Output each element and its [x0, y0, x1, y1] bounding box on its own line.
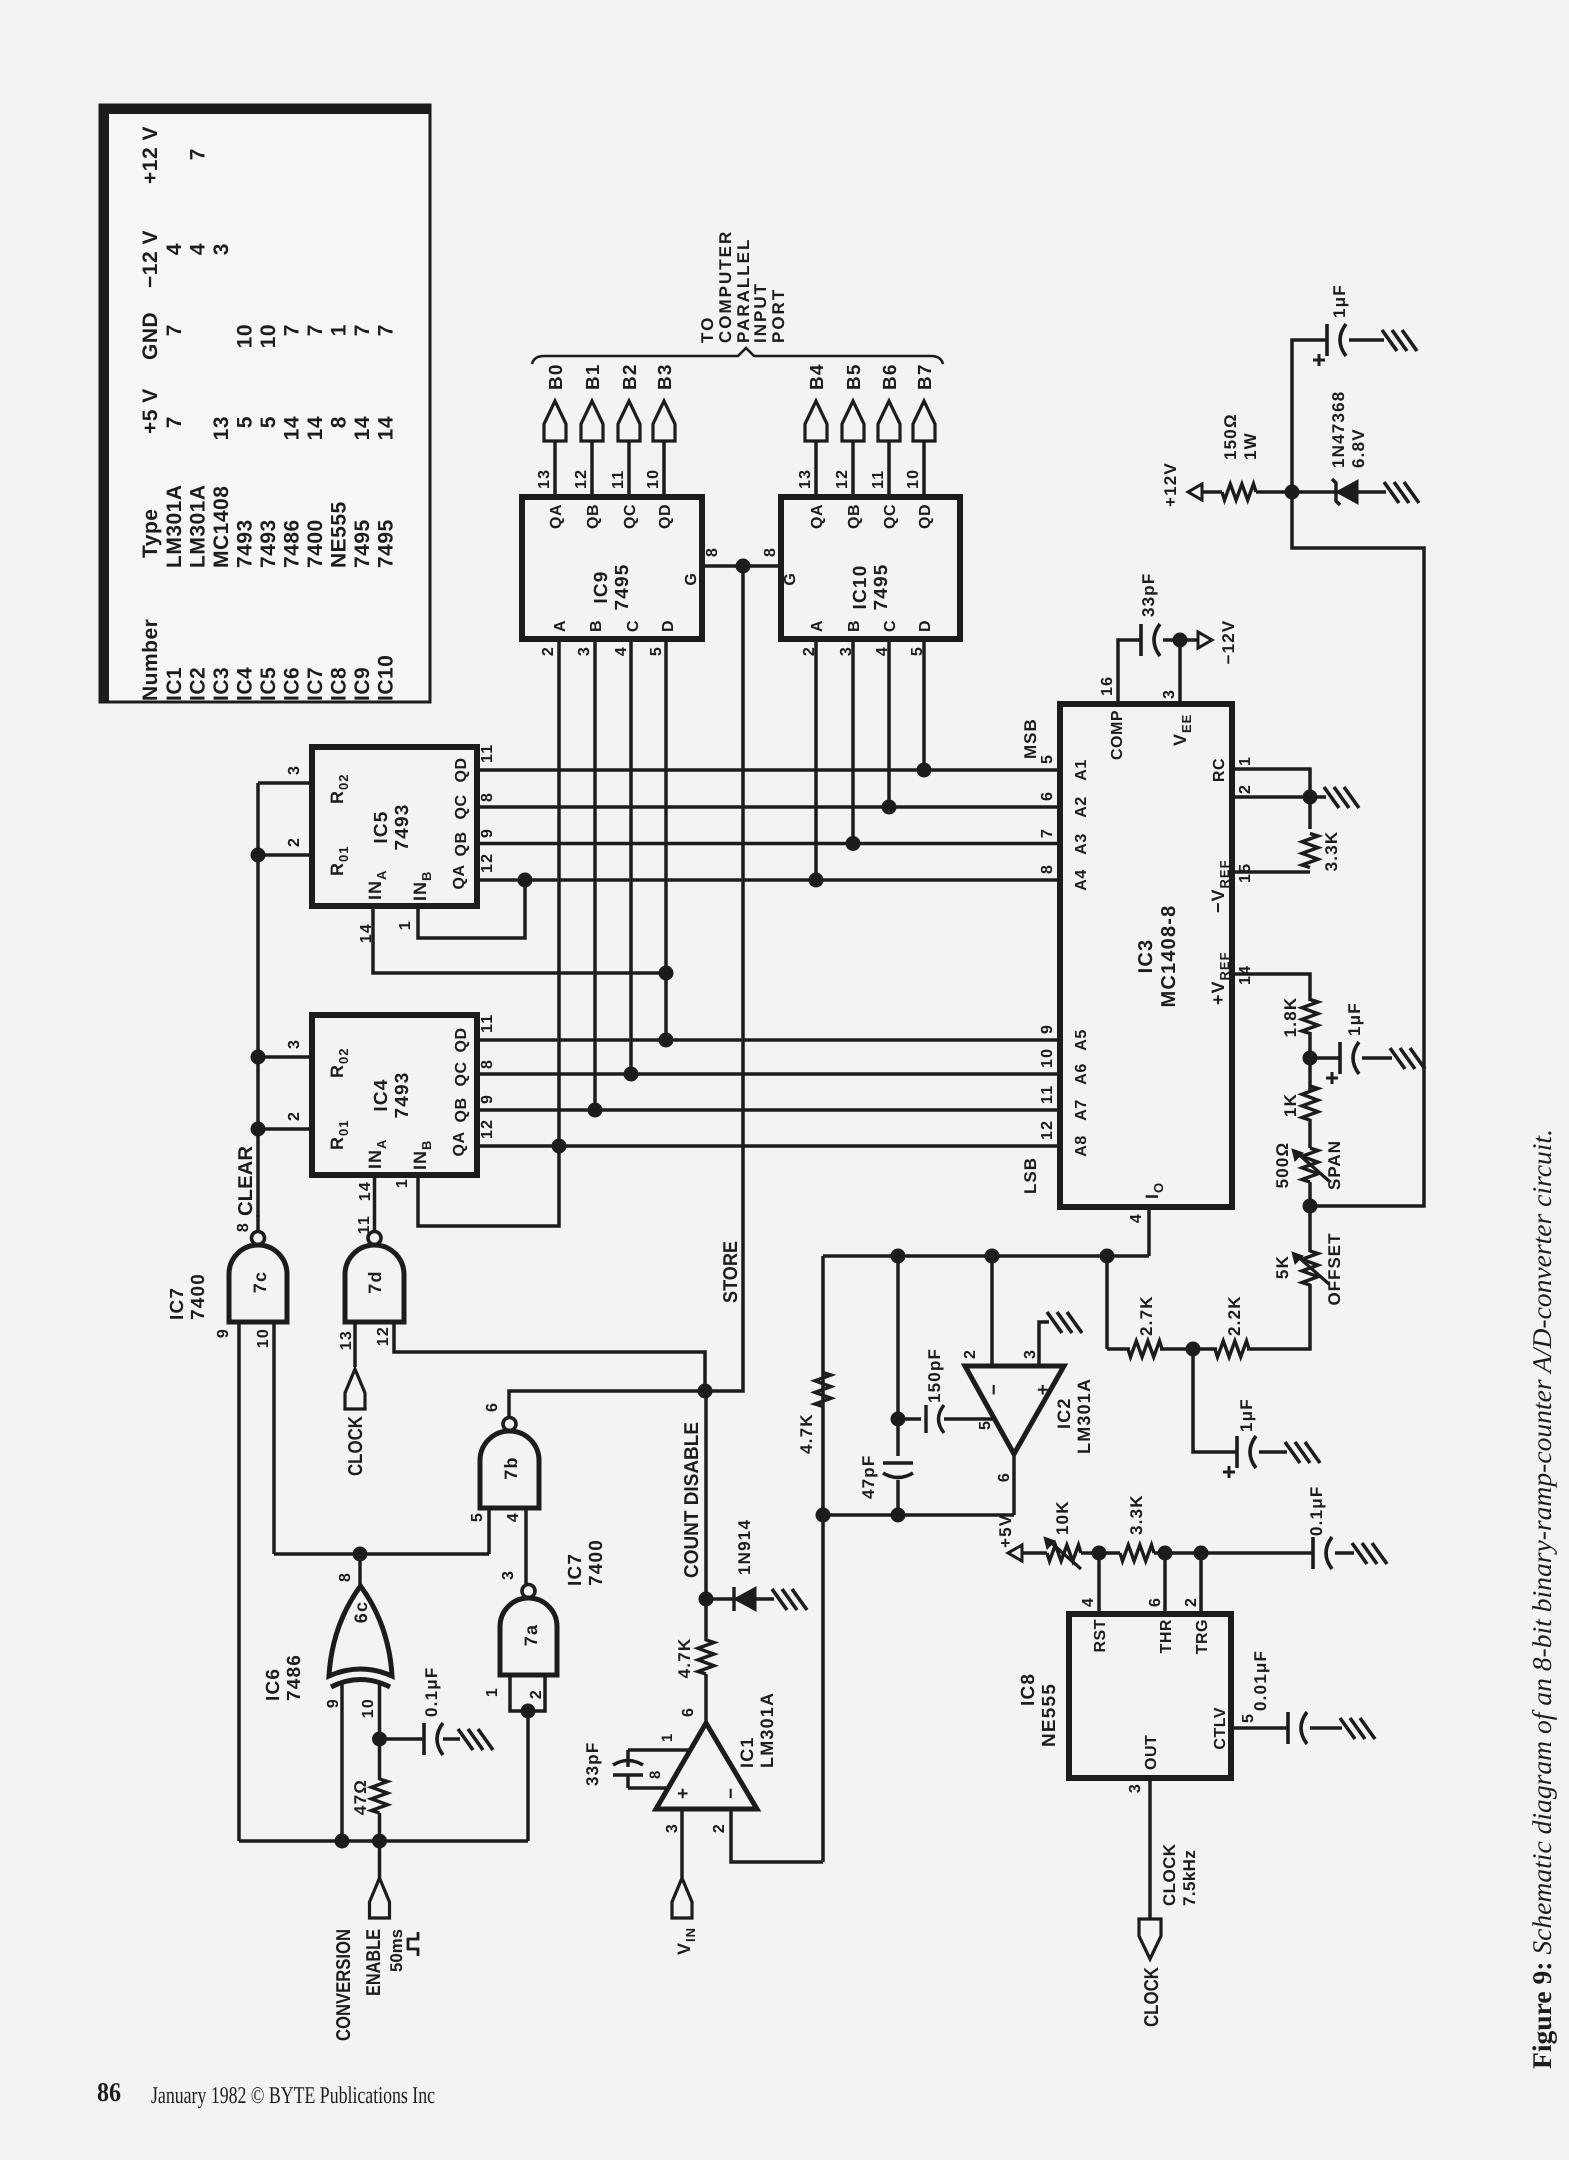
svg-text:4: 4 — [505, 1512, 522, 1522]
junction SPAN/reference rail — [1303, 1199, 1318, 1214]
svg-text:6c: 6c — [351, 1601, 371, 1623]
wire chain — [1308, 1058, 1312, 1091]
output arrow B6 — [878, 401, 900, 441]
output arrow B2 — [618, 401, 640, 441]
output arrow CLOCK out — [1139, 1919, 1161, 1959]
capacitor 150pF to IC2 pin 5 — [898, 1417, 921, 1421]
wire 6c input pin 9 — [340, 1682, 344, 1841]
svg-text:A2: A2 — [1073, 796, 1090, 817]
IC4 7493 box — [312, 1015, 477, 1175]
svg-text:IC9: IC9 — [351, 667, 374, 701]
output arrow B1 — [581, 401, 603, 441]
wire CTLV pin 5 — [1231, 1726, 1288, 1730]
svg-text:1μF: 1μF — [1345, 1002, 1364, 1036]
svg-text:4: 4 — [187, 243, 210, 255]
capacitor 0.01uF on CTLV — [1286, 1712, 1290, 1744]
diode 1N914 clamp — [706, 1597, 734, 1601]
svg-text:QD: QD — [917, 504, 934, 529]
svg-text:IC7: IC7 — [565, 1553, 586, 1586]
svg-text:D: D — [917, 619, 934, 632]
svg-text:CLEAR: CLEAR — [235, 1145, 257, 1216]
svg-text:7400: 7400 — [304, 519, 327, 568]
svg-text:RC: RC — [1211, 758, 1228, 782]
potentiometer 5K OFFSET — [1308, 1206, 1312, 1252]
wire IC9 input D row — [664, 639, 668, 1040]
wire IC4 QD column to DAC A5 — [477, 1038, 1060, 1042]
wire IO pin 4 stub — [1147, 1207, 1151, 1256]
wire conversion enable rail — [239, 1839, 528, 1843]
resistor 3.3K (RC) — [1308, 797, 1312, 829]
svg-text:+5V: +5V — [996, 1514, 1015, 1548]
wire IC9 output QA pin to arrow — [553, 441, 557, 497]
svg-text:IC8: IC8 — [1018, 1673, 1039, 1706]
wire IC5 INA clock from IC4 QD (ripple cascade) — [373, 906, 666, 973]
svg-text:GND: GND — [139, 312, 162, 360]
svg-text:1: 1 — [484, 1687, 501, 1697]
svg-text:IC10: IC10 — [850, 565, 871, 610]
svg-text:IC5: IC5 — [257, 667, 280, 701]
junction IC9.A / IC4.QA / INB loop — [552, 1139, 567, 1154]
svg-text:IC5: IC5 — [371, 810, 392, 843]
svg-text:6: 6 — [1147, 1597, 1164, 1607]
junction VEE/-12V — [1173, 633, 1188, 648]
svg-text:0.1μF: 0.1μF — [1307, 1486, 1326, 1536]
junction IC10.A / IC5.QA — [809, 873, 824, 888]
svg-text:6: 6 — [680, 1707, 697, 1717]
svg-text:4.7K: 4.7K — [675, 1638, 694, 1679]
junction rail/6c pin9 — [335, 1834, 350, 1849]
wire IC10 input A row — [814, 639, 818, 880]
svg-text:QA: QA — [451, 865, 468, 890]
supply arrow +5V — [1008, 1545, 1022, 1561]
input arrow CONVERSION ENABLE — [370, 1878, 390, 1918]
svg-text:A: A — [809, 619, 826, 632]
output arrow B7 — [913, 401, 935, 441]
op-amp IC1 LM301A comparator — [656, 1723, 757, 1809]
junction STORE / 7d pin 12 / count-disable — [698, 1384, 713, 1399]
junction IC9.B / IC4.QB — [588, 1103, 603, 1118]
svg-text:5: 5 — [977, 1420, 994, 1430]
wire IC9 output QB pin to arrow — [590, 441, 594, 497]
svg-text:1: 1 — [659, 1732, 676, 1742]
svg-text:1K: 1K — [1281, 1093, 1300, 1117]
svg-text:16: 16 — [1099, 676, 1116, 696]
resistor 47 ohm — [372, 1779, 388, 1813]
svg-text:QC: QC — [453, 795, 470, 820]
svg-text:7: 7 — [281, 324, 304, 336]
junction XOR output node — [353, 1547, 368, 1562]
svg-text:COMPUTER: COMPUTER — [716, 230, 735, 343]
svg-text:MC1408-8: MC1408-8 — [1158, 905, 1180, 1008]
wire comparator feedback node vertical — [274, 1552, 489, 1556]
svg-text:1: 1 — [397, 920, 414, 930]
wire 7a tied inputs — [510, 1675, 545, 1711]
svg-text:3: 3 — [286, 1039, 303, 1049]
svg-text:7: 7 — [163, 324, 186, 336]
compensation capacitor 33pF on IC1 pins 1,8 — [628, 1748, 690, 1752]
XOR gate 6c (IC6 7486) — [331, 1680, 390, 1688]
svg-text:6: 6 — [484, 1402, 501, 1412]
wire IC10 output QD pin to arrow — [922, 441, 926, 497]
wire 7d output to IC4 INA — [373, 1175, 377, 1231]
svg-text:12: 12 — [834, 469, 851, 489]
svg-text:1: 1 — [394, 1178, 411, 1188]
wire IC9 input C row — [629, 639, 633, 1074]
NAND gate 7d — [345, 1245, 404, 1322]
svg-text:2: 2 — [286, 837, 303, 847]
svg-text:7a: 7a — [521, 1624, 541, 1646]
svg-text:A1: A1 — [1073, 759, 1090, 780]
IC10 7495 box — [781, 497, 960, 639]
wire 7d input pin 12 from STORE net — [394, 1322, 705, 1391]
svg-text:A8: A8 — [1073, 1135, 1090, 1156]
svg-text:IC1: IC1 — [737, 1736, 757, 1768]
wire 47pF feedback branch — [896, 1256, 900, 1456]
svg-text:10: 10 — [905, 469, 922, 489]
capacitor 47pF — [883, 1461, 913, 1465]
wire +5V rail — [1022, 1551, 1047, 1555]
svg-text:7486: 7486 — [284, 1654, 305, 1701]
svg-text:2: 2 — [540, 646, 557, 656]
svg-text:7c: 7c — [250, 1271, 270, 1293]
wire 7b input pin 5 — [487, 1508, 491, 1554]
wire IC9 input A row — [557, 639, 561, 1146]
svg-text:B1: B1 — [583, 363, 604, 390]
svg-text:G: G — [683, 572, 700, 586]
svg-text:50ms: 50ms — [387, 1929, 406, 1972]
wire to zener reference rail — [1292, 492, 1424, 1206]
svg-text:7400: 7400 — [586, 1539, 607, 1586]
wire 7a output to 7b pin 4 — [524, 1508, 528, 1585]
junction 1.8K/1uF — [1303, 1051, 1318, 1066]
junction TRG — [1194, 1546, 1209, 1561]
svg-text:7: 7 — [187, 148, 210, 160]
junction 2.2K/2.7K/1uF — [1186, 1342, 1201, 1357]
wire 6c input pin 10 via 47 ohm — [378, 1813, 382, 1841]
svg-text:3: 3 — [1022, 1349, 1039, 1359]
wire IC10 input C row — [887, 639, 891, 807]
svg-text:A3: A3 — [1073, 833, 1090, 854]
pulse symbol — [408, 1932, 418, 1956]
svg-text:12: 12 — [479, 1119, 496, 1139]
wire IC5 QD column to DAC A1 (MSB bit) — [477, 768, 1060, 772]
wire IC5 QC column to DAC A2 — [477, 805, 1060, 809]
svg-text:7400: 7400 — [188, 1273, 209, 1320]
svg-text:QB: QB — [585, 504, 602, 529]
svg-text:Type: Type — [139, 509, 162, 558]
wire -12V arrow stub — [1180, 638, 1198, 642]
svg-text:10: 10 — [645, 469, 662, 489]
wire IC4 QB column to DAC A7 — [477, 1108, 1060, 1112]
svg-text:11: 11 — [610, 470, 627, 489]
svg-text:LM301A: LM301A — [1074, 1378, 1094, 1454]
svg-text:10: 10 — [1039, 1048, 1056, 1068]
svg-text:B: B — [846, 619, 863, 632]
svg-text:MSB: MSB — [1021, 718, 1040, 759]
svg-text:1: 1 — [328, 324, 351, 336]
svg-text:1W: 1W — [1241, 432, 1260, 460]
wire RST pin 4 — [1097, 1553, 1101, 1614]
svg-text:CTLV: CTLV — [1212, 1707, 1229, 1750]
wire IC10 output QA pin to arrow — [814, 441, 818, 497]
svg-text:8: 8 — [762, 547, 779, 557]
svg-text:QA: QA — [451, 1132, 468, 1157]
svg-text:2: 2 — [286, 1111, 303, 1121]
svg-text:7: 7 — [1039, 828, 1056, 838]
svg-text:IC1: IC1 — [163, 667, 186, 701]
svg-text:3.3K: 3.3K — [1127, 1494, 1146, 1535]
junction IC10.C / IC5.QC — [882, 800, 897, 815]
svg-text:4: 4 — [1128, 1213, 1145, 1223]
svg-text:10: 10 — [360, 1698, 377, 1718]
svg-text:5: 5 — [469, 1512, 486, 1522]
svg-text:SPAN: SPAN — [1325, 1140, 1344, 1190]
wire IC1 inverting input from integrator output — [731, 1809, 823, 1862]
wire IC4 INB tied to IC4 QA — [418, 1146, 559, 1226]
wire +VREF pin 14 down to divider chain — [1232, 974, 1310, 1001]
svg-text:QA: QA — [548, 504, 565, 529]
wire IC10 output QB pin to arrow — [851, 441, 855, 497]
wire rail — [1099, 1551, 1120, 1555]
wire THR pin 6 — [1163, 1553, 1167, 1614]
svg-text:OFFSET: OFFSET — [1325, 1232, 1344, 1305]
wire rail to 0.1uF — [1201, 1551, 1313, 1555]
svg-text:−12 V: −12 V — [139, 230, 162, 288]
svg-text:IC6: IC6 — [263, 1668, 284, 1701]
junction rail/47 ohm — [372, 1834, 387, 1849]
resistor 3.3K timer — [1120, 1545, 1154, 1561]
svg-text:3: 3 — [500, 1570, 517, 1580]
svg-text:3: 3 — [286, 765, 303, 775]
svg-text:ENABLE: ENABLE — [363, 1929, 385, 1996]
svg-text:7493: 7493 — [392, 1071, 413, 1118]
svg-text:2: 2 — [1183, 1597, 1200, 1607]
svg-text:QA: QA — [809, 504, 826, 529]
junction CLEAR/IC4 pin2 — [251, 1122, 266, 1137]
svg-text:B7: B7 — [915, 363, 936, 390]
wire IC2 output to comparator — [1012, 1454, 1016, 1515]
wire IC5 QA column to DAC A4 — [477, 878, 1060, 882]
svg-text:5: 5 — [234, 416, 257, 428]
svg-text:8: 8 — [647, 1769, 664, 1779]
wire 2.7K top to summing node — [1105, 1256, 1109, 1349]
NAND gate 7a — [500, 1598, 557, 1675]
svg-text:14: 14 — [304, 416, 327, 440]
wire IC10 input D row — [922, 639, 926, 770]
svg-text:C: C — [625, 619, 642, 632]
potentiometer 10K — [1047, 1545, 1081, 1561]
wire OUT pin 3 to clock arrow — [1148, 1778, 1152, 1919]
svg-text:3: 3 — [1127, 1783, 1144, 1793]
svg-text:TRG: TRG — [1194, 1619, 1211, 1654]
svg-text:4: 4 — [613, 646, 630, 656]
svg-text:11: 11 — [870, 470, 887, 489]
IC9 7495 box — [522, 497, 702, 639]
svg-text:IC8: IC8 — [328, 667, 351, 701]
output arrow B0 — [544, 401, 566, 441]
svg-text:IC10: IC10 — [375, 655, 398, 701]
svg-text:RST: RST — [1092, 1619, 1109, 1653]
wire IC4 QA column to DAC A8 (LSB bit) — [477, 1144, 1060, 1148]
svg-text:CLOCK: CLOCK — [345, 1416, 367, 1476]
svg-text:1N914: 1N914 — [735, 1519, 754, 1575]
svg-text:5: 5 — [648, 646, 665, 656]
svg-text:QD: QD — [657, 504, 674, 529]
svg-text:January 1982 © BYTE Publicatio: January 1982 © BYTE Publications Inc — [151, 2083, 435, 2109]
svg-text:LM301A: LM301A — [163, 484, 186, 568]
svg-text:C: C — [882, 619, 899, 632]
svg-text:B0: B0 — [546, 363, 567, 390]
junction on G wire — [736, 559, 751, 574]
junction 150pF tap — [891, 1412, 906, 1427]
svg-text:10: 10 — [234, 324, 257, 348]
bracket grouping output bits to computer port — [532, 348, 943, 364]
svg-text:14: 14 — [281, 416, 304, 440]
svg-text:B: B — [588, 619, 605, 632]
junction 47pF/output — [891, 1508, 906, 1523]
svg-text:8: 8 — [1039, 864, 1056, 874]
svg-text:9: 9 — [479, 828, 496, 838]
svg-text:12: 12 — [375, 1326, 392, 1346]
svg-text:4.7K: 4.7K — [797, 1413, 816, 1454]
potentiometer 500 ohm SPAN — [1302, 1148, 1318, 1182]
svg-text:+5 V: +5 V — [139, 388, 162, 434]
svg-text:−12V: −12V — [1219, 620, 1238, 665]
resistor 1.8K — [1302, 999, 1318, 1033]
svg-text:14: 14 — [375, 416, 398, 440]
svg-text:+12V: +12V — [1161, 462, 1180, 507]
svg-text:13: 13 — [338, 1330, 355, 1350]
svg-text:47Ω: 47Ω — [351, 1779, 370, 1815]
svg-text:0.01μF: 0.01μF — [1251, 1650, 1270, 1711]
svg-text:10: 10 — [257, 324, 280, 348]
wire output to count disable node — [704, 1391, 708, 1641]
junction 1N914 tap — [699, 1592, 714, 1607]
svg-text:1μF: 1μF — [1330, 284, 1349, 318]
wire VEE pin 3 to -12V node — [1178, 640, 1182, 704]
wire IC5 QB column to DAC A3 — [477, 842, 1060, 846]
svg-text:A6: A6 — [1073, 1063, 1090, 1084]
svg-text:QB: QB — [453, 1098, 470, 1123]
svg-text:NE555: NE555 — [1039, 1683, 1060, 1747]
IC8 NE555 box — [1069, 1614, 1231, 1778]
svg-text:−: − — [721, 1787, 742, 1799]
svg-text:QB: QB — [846, 504, 863, 529]
svg-text:CONVERSION: CONVERSION — [333, 1929, 355, 2041]
svg-text:B4: B4 — [807, 363, 828, 390]
svg-text:2: 2 — [962, 1349, 979, 1359]
svg-text:13: 13 — [210, 416, 233, 440]
capacitor 0.1uF at gate input — [380, 1737, 425, 1741]
svg-text:3: 3 — [1161, 689, 1178, 699]
supply arrow -12V — [1198, 632, 1212, 648]
svg-text:86: 86 — [97, 2077, 121, 2107]
svg-text:STORE: STORE — [720, 1241, 742, 1303]
svg-text:A: A — [552, 619, 569, 632]
input arrow VIN — [672, 1878, 692, 1918]
resistor 1K — [1302, 1086, 1318, 1120]
svg-text:IC7: IC7 — [304, 667, 327, 701]
svg-text:9: 9 — [325, 1698, 342, 1708]
svg-text:7b: 7b — [501, 1456, 521, 1479]
svg-text:A7: A7 — [1073, 1099, 1090, 1120]
svg-text:IC9: IC9 — [591, 570, 612, 603]
wire feedback resistor 4.7K line — [821, 1256, 825, 1862]
junction RST — [1092, 1546, 1107, 1561]
svg-text:150Ω: 150Ω — [1221, 413, 1240, 460]
wire rail — [1165, 1551, 1201, 1555]
svg-text:4: 4 — [1080, 1597, 1097, 1607]
svg-text:QB: QB — [453, 832, 470, 857]
svg-text:6: 6 — [996, 1472, 1013, 1482]
svg-text:IC3: IC3 — [1135, 939, 1157, 974]
junction summing/minus input — [985, 1249, 1000, 1264]
svg-text:5K: 5K — [1273, 1255, 1292, 1279]
output arrow B4 — [805, 401, 827, 441]
svg-text:47pF: 47pF — [859, 1455, 878, 1499]
svg-text:IC4: IC4 — [371, 1078, 392, 1111]
wire IC9 input B row — [593, 639, 597, 1110]
svg-text:COMP: COMP — [1109, 710, 1126, 760]
svg-text:A5: A5 — [1073, 1029, 1090, 1050]
svg-text:+: + — [1033, 1383, 1054, 1395]
svg-text:7.5kHz: 7.5kHz — [1180, 1850, 1199, 1906]
resistor 150 ohm 1W — [1222, 484, 1256, 500]
svg-text:14: 14 — [357, 1181, 374, 1201]
wire IC9 output QC pin to arrow — [627, 441, 631, 497]
svg-text:11: 11 — [356, 1215, 373, 1234]
svg-text:1μF: 1μF — [1237, 1398, 1256, 1432]
svg-text:7495: 7495 — [871, 563, 892, 610]
junction pin2/ground — [1303, 790, 1318, 805]
svg-text:B5: B5 — [844, 363, 865, 390]
wire IC2 minus input to summing node — [990, 1256, 994, 1366]
junction 0.1uF tap — [372, 1732, 387, 1747]
zener diode 1N47368 6.8V — [1292, 490, 1336, 494]
svg-text:IC3: IC3 — [210, 667, 233, 701]
svg-text:7: 7 — [351, 324, 374, 336]
svg-text:IC4: IC4 — [234, 667, 257, 701]
svg-text:Number: Number — [139, 619, 162, 701]
wire IC10 output QC pin to arrow — [887, 441, 891, 497]
svg-text:3: 3 — [576, 646, 593, 656]
svg-text:LM301A: LM301A — [757, 1692, 777, 1768]
svg-text:8: 8 — [479, 1059, 496, 1069]
svg-text:5: 5 — [1240, 1713, 1257, 1723]
output arrow B3 — [653, 401, 675, 441]
svg-text:2: 2 — [528, 1689, 545, 1699]
svg-text:IC7: IC7 — [167, 1287, 188, 1320]
junction IC10.B / IC5.QB — [846, 836, 861, 851]
svg-text:7: 7 — [304, 324, 327, 336]
svg-text:11: 11 — [479, 1014, 496, 1033]
svg-text:33pF: 33pF — [1139, 573, 1158, 617]
svg-text:B6: B6 — [880, 363, 901, 390]
wire IC9 output QD pin to arrow — [662, 441, 666, 497]
svg-text:2.7K: 2.7K — [1137, 1295, 1156, 1336]
ground at DAC pin 2 — [1310, 795, 1326, 799]
svg-text:2.2K: 2.2K — [1225, 1295, 1244, 1336]
svg-text:IC2: IC2 — [1054, 1397, 1074, 1429]
junction IC9.C / IC4.QC — [624, 1067, 639, 1082]
wire +12V to 150 ohm — [1202, 490, 1222, 494]
svg-text:2: 2 — [711, 1823, 728, 1833]
svg-text:D: D — [660, 619, 677, 632]
svg-text:10: 10 — [255, 1328, 272, 1348]
IC power-pin table box — [100, 105, 430, 702]
svg-text:8: 8 — [704, 547, 721, 557]
wire IC2 plus input to ground — [1039, 1322, 1049, 1366]
